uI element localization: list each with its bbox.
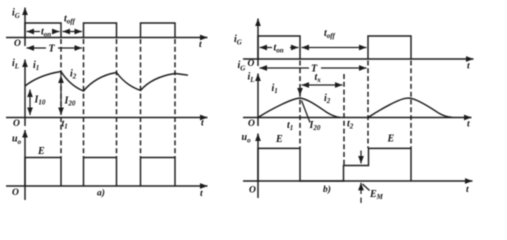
svg-text:I20: I20 [64,96,76,108]
svg-text:iL: iL [12,58,19,71]
dashed line x=175 (a) [174,39,176,157]
arrow up to axis EM (b) [360,183,362,194]
svg-text:t1: t1 [287,120,293,132]
arrow down to EM step (b) [360,151,362,164]
svg-text:i1: i1 [33,60,39,72]
arrow down to peak (b) [299,88,301,96]
dimension toff arrow (a) [63,31,83,33]
dimension I20 arrow (a) [60,76,62,116]
dashed line x=344 t2 (b) [343,74,345,165]
uo pulse 3 (a) [141,158,176,187]
svg-text:tx: tx [315,72,322,84]
axis t horizontal graph2 (a) [6,117,208,119]
svg-text:iG: iG [238,60,246,73]
leader line I20 (b) [302,101,311,123]
svg-text:t: t [467,120,470,130]
iG pulse 1 (b) [258,36,300,59]
svg-text:O: O [14,39,21,49]
dimension T arrow (b) [260,67,310,69]
svg-text:E: E [275,134,283,145]
svg-text:ton: ton [41,27,51,39]
axis uo vertical (a) [24,130,26,200]
dashed line x=300 t1 (b) [299,61,301,149]
svg-text:I20: I20 [309,120,321,132]
iG pulse 2 (a) [84,23,117,38]
EM leader line (b) [363,184,370,191]
axis iL vertical (a) [24,60,26,127]
axis t horizontal graph3 (a) [6,185,208,187]
svg-text:O: O [248,119,255,129]
svg-text:O: O [248,59,255,69]
iG pulse 3 (a) [141,23,176,38]
dashed line x=140.5 (a) [140,39,142,157]
dashed line x=61 (a) [60,39,62,157]
axis t horizontal graph1 (b) [243,58,474,60]
svg-text:toff: toff [324,28,335,40]
iG pulse 1 (a) [25,23,61,38]
uo pulse 1 (a) [25,158,61,187]
current waveform continuous (a) [25,72,188,92]
svg-text:t: t [467,62,470,72]
svg-text:t1: t1 [62,119,68,131]
svg-text:i2: i2 [324,93,331,105]
svg-text:i2: i2 [70,69,77,81]
uo waveform with EM step (b) [258,148,411,181]
svg-text:t: t [201,119,204,129]
dimension ton arrow (a) [27,31,41,33]
EM dash below (b) [360,198,362,204]
iG pulse 2 (b) [368,36,411,59]
svg-text:O: O [13,119,20,129]
current hump 2 discontinuous (b) [368,98,452,117]
axis t horizontal graph2 (b) [243,117,472,119]
dashed line x=411 (b) [410,61,412,149]
svg-text:O: O [12,188,19,198]
svg-text:t: t [199,40,202,50]
svg-text:E: E [387,134,395,145]
svg-text:EM: EM [369,189,384,201]
svg-text:O: O [249,186,256,196]
svg-text:E: E [37,146,45,157]
current hump 1 discontinuous (b) [258,98,340,118]
svg-text:uo: uo [242,132,252,145]
svg-text:t2: t2 [347,119,354,131]
svg-text:iG: iG [12,8,20,21]
axis t horizontal graph3 (b) [243,180,473,182]
dimension I10 arrow (a) [29,90,31,116]
svg-text:a): a) [97,188,105,199]
axis iG vertical (b) [257,19,259,67]
dashed line x=368 (b) [367,61,369,149]
dimension toff arrow (b) [302,47,367,49]
svg-text:iG: iG [234,34,242,47]
axis t horizontal graph1 (a) [6,37,208,39]
axis iL vertical (b) [257,74,259,127]
svg-text:I10: I10 [34,95,46,107]
svg-text:iL: iL [248,72,255,85]
dashed line x=116.5 (a) [116,39,118,157]
uo pulse 2 (a) [84,158,117,187]
axis uo vertical (b) [257,134,259,199]
svg-text:ton: ton [274,43,284,55]
dimension tx arrow (b) [302,84,343,86]
svg-text:t: t [200,189,203,199]
dimension T arrow (a) [27,47,47,49]
svg-text:b): b) [323,184,331,195]
svg-text:T: T [49,44,56,55]
svg-text:i1: i1 [272,83,278,95]
svg-text:toff: toff [64,14,75,26]
svg-text:uo: uo [12,134,22,147]
dashed line x=83.5 (a) [83,39,85,157]
dimension ton arrow (b) [260,47,273,49]
axis iG vertical (a) [24,8,26,47]
svg-text:t: t [466,185,469,195]
